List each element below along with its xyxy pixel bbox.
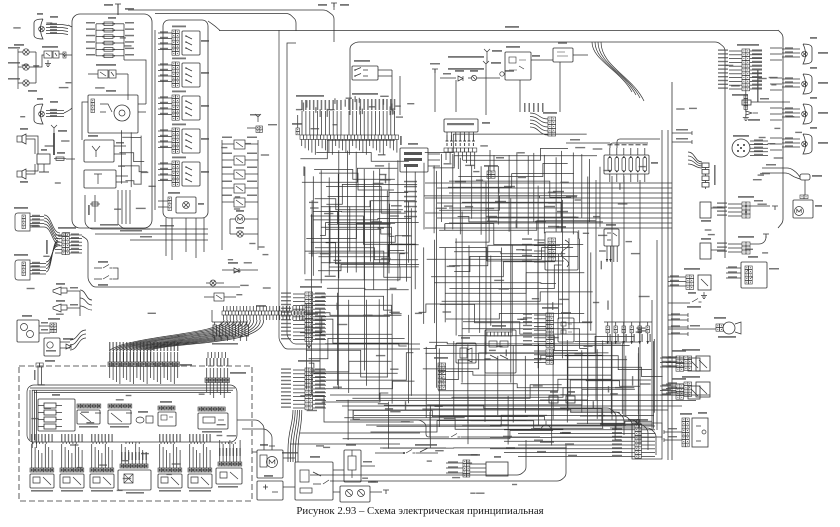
wire	[55, 238, 62, 240]
wire	[132, 442, 134, 444]
wire harness	[770, 119, 782, 121]
wire	[729, 61, 742, 63]
wire	[314, 170, 395, 180]
label text	[160, 113, 168, 114]
wire	[59, 54, 65, 56]
label text	[752, 57, 762, 58]
label text	[281, 319, 291, 320]
label text	[668, 436, 677, 437]
switch S4.3	[182, 96, 200, 120]
wire	[410, 208, 412, 396]
wire label	[307, 410, 317, 411]
label XP5.1 X59.1	[300, 286, 322, 288]
wire	[600, 424, 648, 450]
wire bus	[437, 202, 672, 204]
fuse pin dot	[102, 49, 104, 51]
A1.3 T symbol	[94, 174, 102, 184]
wire	[467, 345, 469, 424]
wire	[293, 369, 305, 371]
wire label	[385, 408, 393, 409]
wire	[94, 278, 102, 280]
wire	[125, 442, 127, 444]
switch SAB	[604, 229, 619, 246]
wire	[116, 352, 118, 362]
label text	[203, 434, 204, 442]
wire	[350, 420, 430, 437]
block A5 dark rows	[404, 152, 422, 155]
label text	[228, 262, 238, 264]
wire	[117, 4, 119, 15]
wire	[98, 450, 100, 468]
wire	[289, 306, 291, 311]
wire	[660, 362, 676, 364]
wire	[396, 139, 398, 152]
wire	[672, 132, 692, 134]
enclosure B left edge outer	[279, 30, 420, 349]
wire	[120, 166, 147, 172]
wire label	[141, 172, 148, 173]
label text	[71, 251, 79, 252]
wire label	[375, 99, 377, 110]
wire	[223, 306, 225, 311]
label text	[168, 192, 180, 194]
wire	[750, 58, 762, 60]
wire	[127, 74, 129, 100]
label text	[160, 37, 168, 38]
wire	[46, 28, 68, 29]
wire	[363, 169, 365, 280]
item 3P2	[500, 72, 504, 76]
wire label	[578, 230, 579, 239]
label text	[169, 434, 170, 442]
wire	[705, 174, 707, 176]
wire label	[639, 166, 646, 167]
label text	[160, 146, 168, 147]
wire label	[517, 152, 524, 153]
wire label	[325, 276, 336, 277]
connector of M6	[800, 195, 808, 199]
wire	[30, 219, 44, 221]
wire	[728, 207, 742, 209]
wire harness	[530, 120, 548, 127]
label text	[281, 391, 291, 392]
label text	[8, 78, 20, 80]
connector X51.B	[686, 275, 694, 289]
wire	[293, 297, 305, 299]
label text	[662, 356, 671, 357]
wire	[158, 32, 172, 34]
label text	[32, 215, 40, 217]
label text	[50, 16, 58, 18]
pump M1.1	[17, 320, 39, 342]
wire	[69, 248, 82, 250]
wire bus	[449, 222, 672, 224]
label text	[612, 443, 622, 444]
wire	[163, 352, 165, 362]
enclosure B left edge inner	[287, 70, 420, 344]
wire	[568, 238, 570, 329]
wire harness	[688, 152, 702, 162]
label UAB	[698, 412, 707, 414]
wire	[167, 442, 169, 444]
label text	[32, 272, 40, 274]
wire	[745, 91, 747, 112]
relay K5.17	[234, 184, 245, 193]
wire	[163, 366, 165, 378]
wire	[750, 151, 768, 153]
wire	[293, 377, 305, 379]
label text	[160, 80, 168, 81]
wire	[177, 366, 179, 378]
wire bundle	[141, 320, 254, 350]
wire	[94, 195, 96, 222]
resistor A2.1	[213, 325, 216, 336]
label text	[315, 292, 325, 293]
mark	[691, 361, 698, 368]
wire	[319, 309, 321, 389]
wire label	[306, 100, 307, 107]
relay KP11	[44, 51, 52, 58]
label text	[752, 61, 762, 62]
wire label	[619, 183, 620, 190]
wire	[72, 442, 74, 444]
wire	[352, 385, 561, 399]
label text	[68, 434, 69, 442]
lamp in E5	[183, 202, 190, 209]
label text	[443, 73, 451, 75]
wire	[729, 88, 742, 90]
wire	[666, 392, 684, 394]
label text	[45, 434, 46, 442]
wire	[371, 421, 527, 432]
wire	[214, 336, 216, 341]
label text	[106, 90, 116, 92]
wire	[116, 73, 128, 75]
fuse K18.2	[702, 170, 709, 175]
label text	[531, 428, 540, 429]
wire	[313, 218, 411, 220]
wire	[272, 306, 274, 311]
wire	[115, 55, 124, 57]
wire	[393, 139, 395, 150]
wire	[468, 245, 470, 333]
box 1A6	[558, 318, 574, 342]
wire	[166, 450, 168, 468]
frame of X3L	[632, 423, 662, 459]
wire	[55, 248, 62, 250]
wire	[220, 368, 222, 378]
wire	[547, 244, 549, 330]
wire label	[354, 419, 360, 420]
wire	[449, 245, 560, 265]
wire	[115, 42, 124, 44]
item G2	[136, 417, 144, 423]
wire	[160, 352, 162, 362]
connector X51.V	[716, 324, 723, 331]
label text	[676, 129, 688, 131]
label text	[100, 224, 118, 226]
label text	[136, 342, 137, 351]
pump impeller2	[47, 342, 53, 348]
label G2	[138, 411, 148, 413]
wire harness curve	[592, 42, 632, 92]
wire	[293, 396, 305, 398]
wire	[330, 212, 391, 225]
label X12	[160, 401, 172, 403]
label text	[281, 406, 291, 407]
wire	[728, 247, 742, 249]
label X51.B K12	[682, 349, 700, 351]
label text	[86, 22, 95, 24]
wire	[233, 315, 235, 320]
wire	[313, 369, 326, 371]
wire label	[499, 288, 509, 289]
label FL	[810, 67, 817, 69]
label text	[671, 313, 680, 314]
spark plug V1.5	[463, 135, 466, 146]
wire	[349, 206, 351, 251]
wire	[352, 139, 354, 146]
wire label	[56, 314, 64, 315]
connector XPSh1	[62, 233, 69, 255]
wire	[750, 73, 762, 75]
wire	[167, 366, 169, 380]
label text	[718, 68, 728, 69]
wire	[480, 166, 482, 234]
wire	[38, 426, 44, 428]
X24 dots	[745, 205, 747, 207]
enclosure C right edge	[778, 30, 783, 228]
switch S4.1	[182, 31, 200, 55]
wire	[356, 111, 358, 135]
wire	[493, 155, 495, 171]
label text	[50, 112, 57, 114]
wire harness	[288, 410, 293, 450]
wire	[458, 164, 567, 177]
wire label	[391, 205, 402, 206]
label text	[71, 248, 79, 249]
fuse F1.4	[102, 41, 115, 45]
wire	[114, 145, 126, 147]
label text	[668, 382, 677, 383]
wire label	[516, 220, 517, 228]
wire	[116, 350, 118, 362]
wire	[125, 190, 127, 224]
label text	[135, 452, 136, 460]
label text	[315, 319, 325, 320]
wire	[109, 366, 111, 378]
wire	[311, 200, 313, 256]
wire	[408, 201, 410, 262]
wire	[666, 383, 684, 385]
wire	[78, 447, 80, 468]
wire	[293, 331, 305, 333]
wire	[96, 23, 102, 25]
label text	[760, 98, 769, 100]
wire	[316, 153, 409, 162]
wire label	[334, 260, 342, 261]
label text	[160, 129, 168, 130]
label text	[612, 451, 622, 452]
wire	[158, 163, 172, 165]
wire harness	[770, 137, 782, 139]
wire	[609, 246, 611, 262]
wire	[589, 159, 591, 222]
wire	[105, 442, 107, 444]
label text	[247, 167, 257, 169]
wire	[568, 367, 663, 376]
wire bundle	[127, 320, 241, 350]
label EL	[818, 52, 828, 54]
label text	[662, 361, 671, 362]
wire	[750, 154, 768, 156]
wire	[575, 436, 662, 438]
label text	[522, 249, 532, 251]
label text	[612, 440, 622, 441]
wire	[123, 350, 125, 362]
wire	[313, 301, 326, 303]
label text	[754, 143, 763, 144]
wire	[150, 350, 152, 362]
enclosure light switch column	[163, 20, 208, 218]
wire	[425, 336, 634, 353]
wire	[782, 82, 800, 84]
wire	[750, 50, 762, 52]
unit X12	[158, 412, 176, 426]
wire label	[345, 100, 346, 107]
wire	[365, 300, 367, 386]
comb of K5L.3	[487, 332, 512, 336]
wire	[328, 177, 330, 275]
wire	[143, 350, 145, 362]
wire	[726, 267, 741, 269]
label text	[32, 218, 40, 220]
arrowhead	[606, 341, 609, 344]
wire	[301, 305, 402, 314]
wire	[221, 352, 223, 358]
label P4	[482, 122, 490, 124]
wire label	[476, 180, 483, 181]
UAB marks	[696, 426, 706, 441]
label text	[506, 447, 515, 448]
label text	[315, 368, 325, 369]
relay rele starter	[158, 474, 182, 488]
wire	[313, 304, 326, 306]
label text	[206, 358, 207, 366]
relay K32	[698, 275, 711, 290]
wire	[321, 111, 323, 135]
wire harness	[688, 156, 702, 164]
wire	[133, 352, 135, 362]
label text	[754, 154, 763, 155]
wire	[153, 352, 155, 362]
wire	[615, 333, 617, 344]
wire	[726, 272, 741, 274]
wire	[293, 308, 305, 310]
label text	[281, 387, 291, 388]
label text	[495, 201, 506, 203]
lamp HL12	[23, 64, 29, 70]
label text	[430, 63, 440, 65]
wire label	[494, 280, 504, 281]
wire label	[465, 206, 473, 207]
wire	[458, 355, 603, 360]
wire	[590, 252, 592, 330]
wire	[668, 328, 716, 330]
label text	[565, 443, 574, 444]
label text	[315, 391, 325, 392]
label text	[701, 220, 711, 222]
wire	[158, 174, 172, 176]
wire	[590, 420, 640, 445]
tick	[687, 332, 689, 336]
wire trunk	[595, 180, 597, 400]
fuse F4.2	[615, 158, 619, 172]
label EL	[818, 112, 828, 114]
wire	[38, 412, 44, 414]
wire	[497, 166, 499, 225]
label text	[167, 342, 168, 351]
fuse F4.1	[608, 158, 612, 172]
wire bundle	[120, 320, 234, 350]
connector V1 row	[444, 148, 477, 152]
wire bus	[342, 405, 682, 407]
wire label	[313, 100, 315, 110]
wire	[387, 402, 389, 449]
label text	[121, 452, 122, 460]
label text	[315, 376, 325, 377]
wire harness curve	[601, 42, 644, 101]
wire	[455, 132, 457, 135]
wire	[364, 180, 366, 371]
label text	[315, 384, 325, 385]
label text	[612, 447, 622, 448]
label text	[116, 142, 124, 144]
wire	[222, 159, 234, 161]
wire	[44, 444, 46, 468]
label text	[625, 334, 626, 342]
wire	[81, 130, 83, 140]
label text	[281, 368, 291, 369]
bank A2 bus	[212, 321, 248, 323]
label signal unit	[110, 426, 129, 428]
wire label	[386, 99, 388, 110]
label FL	[810, 97, 817, 99]
wire	[126, 352, 128, 362]
wire	[311, 216, 403, 244]
GB plus minus	[263, 485, 278, 493]
wire	[129, 366, 131, 382]
wire	[466, 152, 468, 163]
wire	[322, 227, 417, 244]
wire label	[603, 170, 611, 171]
headlight EL13	[803, 44, 812, 64]
wire	[46, 31, 68, 32]
wire	[219, 440, 221, 462]
wire	[113, 268, 118, 279]
wire	[504, 429, 635, 431]
terminal	[763, 234, 769, 238]
label text	[281, 334, 291, 335]
label S4.1	[201, 40, 209, 42]
fuse F16	[54, 157, 66, 160]
label XV1.1	[506, 46, 520, 48]
wire	[668, 319, 688, 321]
connector XL6.3	[546, 313, 554, 347]
wire	[313, 373, 326, 375]
wire	[115, 36, 124, 38]
wire	[570, 412, 624, 435]
